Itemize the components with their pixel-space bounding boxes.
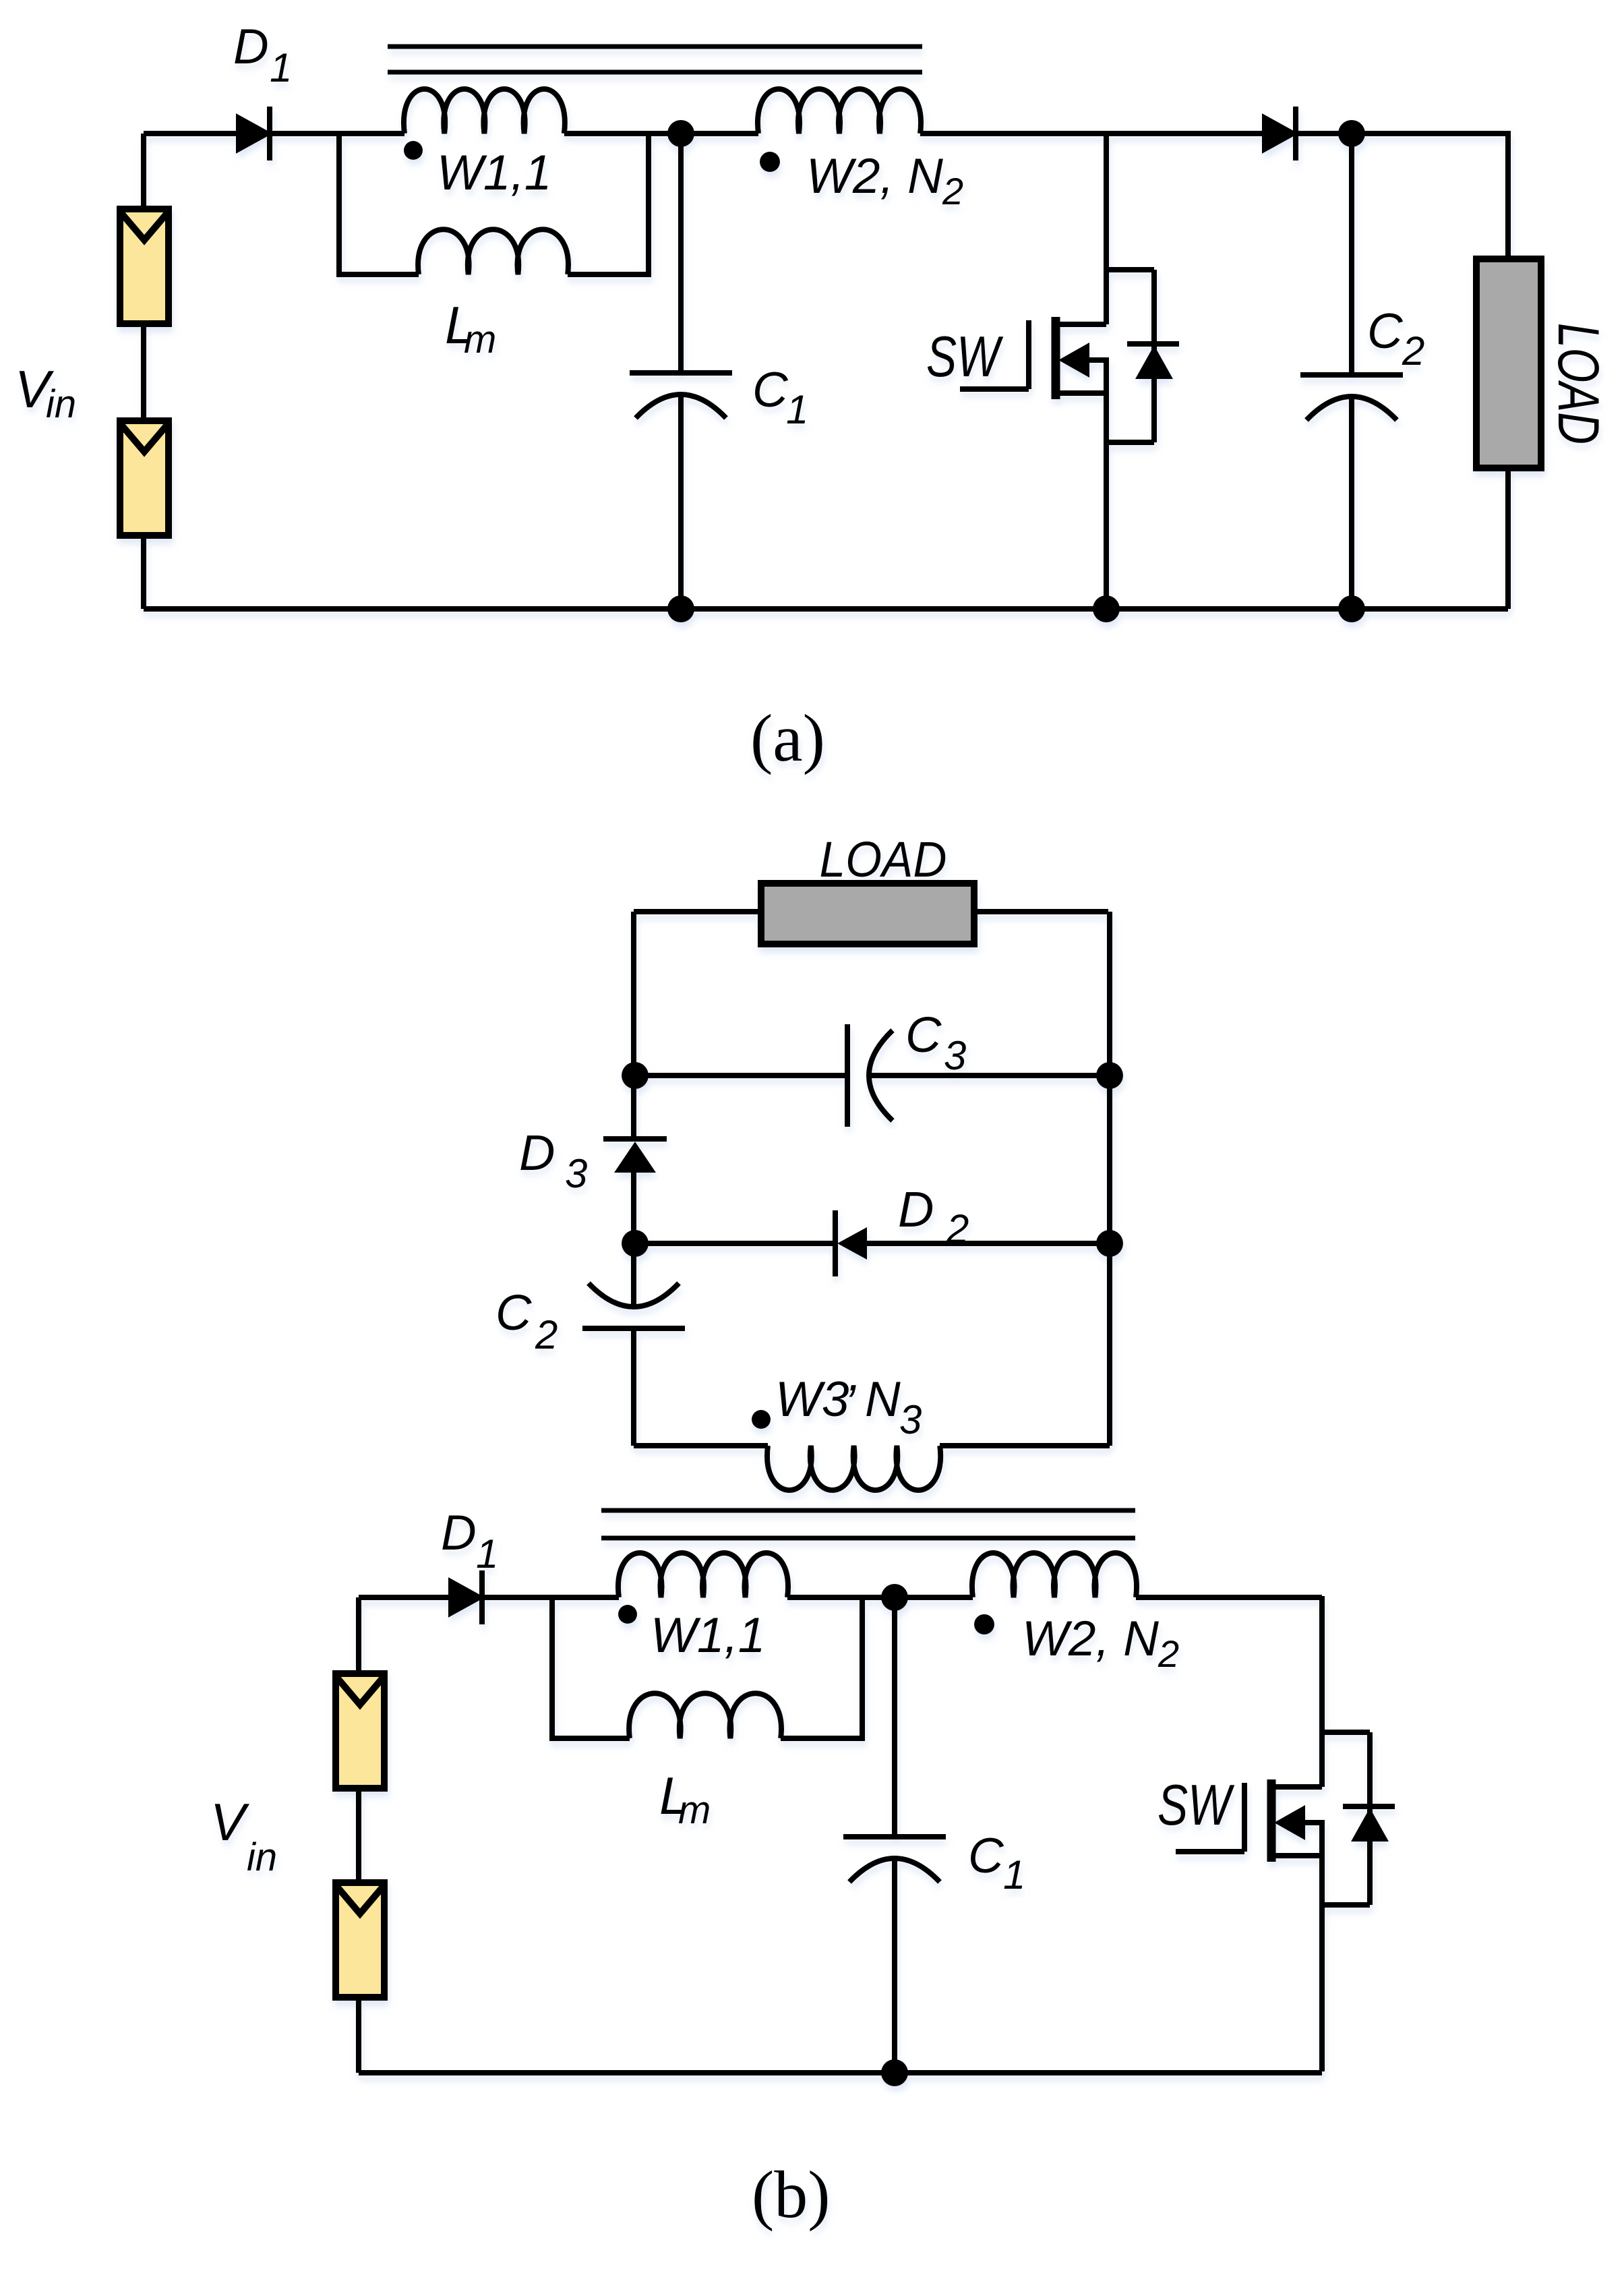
svg-text:m: m (678, 1788, 711, 1832)
svg-text:2: 2 (1402, 328, 1424, 374)
svg-text:3: 3 (899, 1397, 922, 1442)
svg-text:N: N (865, 1372, 901, 1427)
svg-text:in: in (46, 382, 76, 426)
svg-text:W2, N: W2, N (806, 149, 943, 204)
svg-text:LOAD: LOAD (1546, 323, 1611, 444)
svg-text:W1,1: W1,1 (651, 1608, 765, 1663)
svg-text:3: 3 (565, 1151, 587, 1196)
svg-text:SW: SW (1157, 1773, 1234, 1837)
svg-text:2: 2 (1157, 1632, 1179, 1675)
svg-text:in: in (247, 1835, 277, 1879)
svg-text:3: 3 (944, 1033, 966, 1078)
svg-text:C: C (968, 1829, 1004, 1883)
svg-text:D: D (441, 1506, 477, 1560)
svg-text:C: C (495, 1285, 532, 1340)
svg-text:1: 1 (1003, 1852, 1025, 1897)
svg-text:2: 2 (942, 170, 963, 212)
svg-text:m: m (464, 318, 496, 361)
svg-text:(a): (a) (750, 701, 825, 775)
svg-text:2: 2 (946, 1206, 969, 1251)
svg-text:W3: W3 (775, 1372, 849, 1427)
svg-text:1: 1 (270, 45, 292, 90)
svg-text:W2, N: W2, N (1022, 1612, 1159, 1666)
svg-text:LOAD: LOAD (820, 831, 947, 887)
svg-text:D: D (233, 20, 269, 74)
svg-text:C: C (1367, 304, 1404, 359)
svg-text:(b): (b) (752, 2157, 831, 2232)
svg-text:C: C (752, 363, 789, 417)
svg-text:,: , (848, 1347, 862, 1401)
svg-text:1: 1 (476, 1531, 498, 1576)
svg-text:W1,1: W1,1 (437, 146, 551, 200)
svg-text:1: 1 (786, 387, 808, 432)
svg-text:D: D (898, 1181, 934, 1237)
svg-text:SW: SW (926, 325, 1003, 389)
svg-text:C: C (905, 1007, 942, 1063)
svg-text:D: D (519, 1125, 555, 1181)
svg-text:V: V (210, 1792, 250, 1852)
svg-text:2: 2 (535, 1312, 558, 1357)
